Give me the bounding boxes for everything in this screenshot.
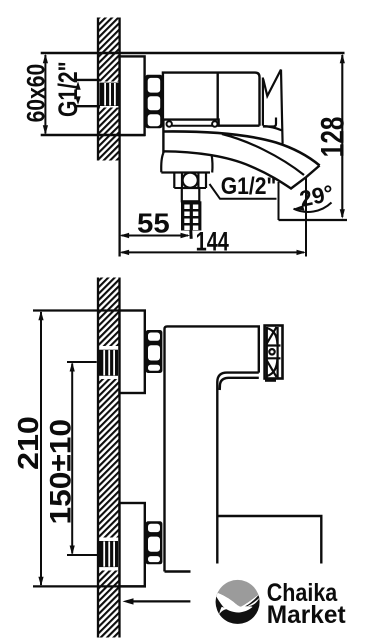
mounting direction arrow	[123, 598, 191, 604]
ribbed hose	[181, 201, 201, 230]
logo bird white	[215, 592, 260, 613]
spout bottom extension vertical	[278, 182, 280, 220]
threaded pipe lower connection	[98, 541, 118, 567]
144 dimension	[120, 250, 306, 255]
top extension line	[41, 52, 345, 55]
flange plate (top drawing)	[120, 56, 145, 135]
wall hatch upper segment	[98, 18, 119, 161]
spout bottom curve	[163, 151, 306, 188]
svg-text:128: 128	[315, 117, 351, 158]
handle (top drawing)	[263, 70, 283, 144]
210 extension lines	[33, 311, 145, 587]
svg-text:G1/2": G1/2"	[54, 61, 84, 117]
bottom extension line of flange (60x60)	[41, 134, 145, 137]
55 dimension	[120, 233, 190, 238]
svg-text:144: 144	[196, 228, 230, 257]
G1/2 pipe dimension arrows	[75, 81, 80, 105]
128 bottom extension line	[279, 219, 348, 221]
svg-text:G1/2": G1/2"	[221, 172, 277, 200]
threaded pipe upper connection	[98, 350, 118, 376]
faucet body (top drawing)	[162, 73, 260, 126]
threaded pipe in wall (top drawing)	[100, 83, 119, 106]
spout top curve	[163, 131, 319, 165]
arc arrowhead	[294, 205, 305, 210]
29 degree arc	[294, 203, 332, 212]
logo bird tail	[219, 607, 229, 615]
128 dimension	[340, 54, 345, 219]
spout left edge	[162, 120, 164, 154]
shower hex + ball	[174, 173, 206, 189]
logo black sea	[214, 592, 261, 625]
hose tail	[189, 231, 192, 239]
nut upper (bottom drawing)	[146, 330, 163, 373]
wall left edge	[97, 18, 99, 161]
spout end face	[306, 166, 320, 178]
svg-text:60x60: 60x60	[22, 64, 50, 123]
flange plate lower	[120, 503, 145, 586]
wall right edge / face extension line	[118, 18, 120, 257]
pipe stub outside wall	[77, 80, 101, 106]
logo wing echo	[247, 598, 259, 607]
wall hatch lower	[98, 278, 119, 638]
spout inner lip curve	[222, 134, 304, 175]
150±10 extension lines	[67, 362, 99, 555]
60x60 dimension line	[43, 54, 48, 135]
shower connector	[182, 188, 200, 201]
nut lower (bottom drawing)	[146, 521, 163, 564]
150±10 dimension	[70, 362, 75, 555]
svg-text:55: 55	[137, 208, 170, 239]
svg-text:150±10: 150±10	[44, 419, 77, 525]
connection nut (top drawing)	[145, 75, 162, 128]
flange plate upper	[120, 311, 145, 394]
handle cap (bottom drawing)	[265, 326, 283, 381]
G1/2" spout label leader	[210, 184, 277, 199]
svg-text:Market: Market	[267, 602, 346, 629]
210 dimension	[38, 311, 43, 587]
29 degree angle: vertical ray	[305, 177, 307, 256]
spout neck	[167, 121, 218, 126]
shower outlet block	[161, 153, 212, 173]
svg-text:210: 210	[13, 416, 45, 470]
body (bottom drawing)	[165, 326, 322, 571]
wall edges lower	[98, 278, 120, 638]
